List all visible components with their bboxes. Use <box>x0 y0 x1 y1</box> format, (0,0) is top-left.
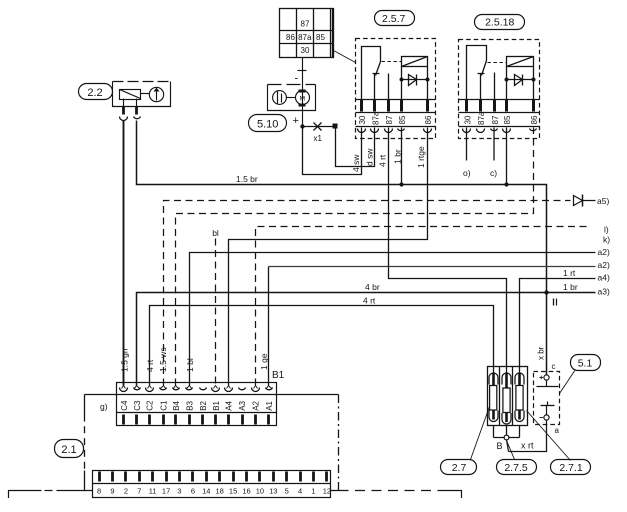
junction dot battery wire on 4br line <box>544 290 548 294</box>
oval label 2.5.7 <box>375 11 415 26</box>
control unit 2.1 left edge <box>84 395 86 415</box>
solenoid coil of 2.2 <box>120 90 141 100</box>
svg-text:B1: B1 <box>212 400 221 410</box>
leader from socket box to relay 2.5.7 <box>334 51 356 63</box>
tick marks ll below junction <box>553 299 555 306</box>
pump motor circle of 2.2 <box>149 87 163 101</box>
svg-text:85: 85 <box>503 115 512 124</box>
svg-text:d sw: d sw <box>365 148 375 166</box>
svg-text:13: 13 <box>269 486 277 495</box>
connector B1 socket arcs <box>120 388 273 392</box>
svg-text:A2: A2 <box>252 400 261 410</box>
svg-text:8: 8 <box>97 486 101 495</box>
svg-text:4 br: 4 br <box>365 282 380 292</box>
bottom pin strip numbers <box>97 486 331 495</box>
motor brush bars of 5.10 <box>299 90 306 93</box>
suppressor diode of 2.5.18 <box>507 75 534 86</box>
relay 2.5.18 contact 87a <box>478 74 485 100</box>
wire 5.10 plus down to relay pin 30 <box>303 127 362 175</box>
relay 2.5.18 pin stubs <box>467 100 534 112</box>
svg-text:86: 86 <box>530 115 539 124</box>
wire pin A1 to terminal a2 <box>268 267 270 386</box>
svg-text:a3): a3) <box>598 287 610 297</box>
svg-text:5.1: 5.1 <box>578 357 593 369</box>
wire junction to x1 <box>303 126 336 128</box>
svg-text:10: 10 <box>256 486 264 495</box>
battery plus terminal <box>544 375 549 380</box>
svg-text:A1: A1 <box>265 400 274 410</box>
relay 2.5.18 mechanical link <box>488 62 507 64</box>
wire square node down to relay pin 87a <box>336 127 375 167</box>
fuse bottom bracket wire <box>494 437 520 439</box>
svg-text:c: c <box>552 362 556 371</box>
relay 2.5.18 switch arm <box>467 46 487 100</box>
dashed wire pin A2 to terminal l <box>256 227 591 386</box>
square junction node <box>333 124 338 129</box>
fuse 2.7 element 1 <box>489 373 498 422</box>
svg-text:A3: A3 <box>238 400 247 410</box>
svg-text:a4): a4) <box>598 272 610 282</box>
fuse bottom stubs <box>494 426 520 438</box>
connector B1 wire end forks <box>122 386 272 389</box>
wire 1.5 gn from 2.2 to pin C4 <box>123 121 125 386</box>
svg-text:85: 85 <box>316 33 325 42</box>
relay 2.5.7 switch arm <box>362 47 381 100</box>
svg-text:C3: C3 <box>133 400 142 411</box>
relay 2.5.18 contact 87 <box>494 73 496 100</box>
terminal crossbar tick <box>298 70 307 72</box>
svg-text:l): l) <box>604 225 609 235</box>
relay 2.5.7 contact 87a <box>373 74 380 100</box>
svg-text:87a: 87a <box>477 111 486 125</box>
svg-text:87: 87 <box>491 115 500 124</box>
battery 5.1 dashed housing <box>534 372 560 425</box>
svg-text:1 rtge: 1 rtge <box>416 146 426 168</box>
svg-text:2.5.18: 2.5.18 <box>485 17 514 29</box>
motor circle of 5.10 <box>296 91 310 105</box>
wire node to x rt run <box>507 440 509 452</box>
wire x rt to battery minus <box>509 425 547 452</box>
pump arrow of 2.2 <box>154 88 160 92</box>
relay 2.5.7 pin stubs <box>362 100 428 112</box>
svg-text:87: 87 <box>301 20 310 29</box>
wire 1.5 br from 2.2 to battery <box>137 121 547 375</box>
relay U2.5.18 dashed housing <box>459 40 540 139</box>
svg-text:B: B <box>497 441 503 451</box>
svg-text:a5): a5) <box>597 196 609 206</box>
oval label 2.7.1 <box>551 460 591 475</box>
svg-text:30: 30 <box>463 115 472 124</box>
svg-text:6: 6 <box>191 486 195 495</box>
svg-text:3: 3 <box>177 486 181 495</box>
svg-text:1.5 gn: 1.5 gn <box>119 348 129 372</box>
relay 2.5.18 internal bus line <box>459 99 540 101</box>
oval label 2.7.5 <box>497 460 537 475</box>
svg-text:1 bl: 1 bl <box>185 358 195 372</box>
wire 4 br pin C3 to terminal a3 <box>137 293 596 386</box>
svg-text:1 br: 1 br <box>563 282 578 292</box>
relay 2.5.18 socket arcs <box>463 129 537 133</box>
leader 2.7.1 to fuse box <box>527 411 571 461</box>
svg-text:bl: bl <box>212 228 219 238</box>
svg-text:g): g) <box>100 402 108 412</box>
connector B1 housing <box>117 383 277 426</box>
svg-text:C1: C1 <box>159 400 168 411</box>
svg-text:16: 16 <box>242 486 250 495</box>
svg-text:7: 7 <box>137 486 141 495</box>
relay 2.5.7 socket arcs <box>358 129 432 133</box>
svg-text:B1: B1 <box>272 370 285 381</box>
svg-text:15: 15 <box>229 486 237 495</box>
svg-text:14: 14 <box>202 486 210 495</box>
leader 2.7.5 to fuse node <box>507 441 515 460</box>
wire fuse 3 to terminal a4 <box>520 279 596 375</box>
relay 2.5.7 contact 87 <box>388 74 390 100</box>
socket arcs of 2.2 <box>120 117 128 121</box>
junction dot 2.5.7 pin85 <box>399 182 403 186</box>
svg-text:87a: 87a <box>372 111 381 125</box>
connector B1 pin stubs <box>124 415 269 425</box>
svg-text:4 rt: 4 rt <box>378 154 388 167</box>
junction dot below 5.10 <box>300 124 304 128</box>
svg-text:2.2: 2.2 <box>87 87 102 99</box>
svg-text:5: 5 <box>285 486 289 495</box>
svg-text:87a: 87a <box>298 33 312 42</box>
svg-text:2.7.1: 2.7.1 <box>559 462 583 474</box>
terminal stubs of 2.2 <box>122 107 125 115</box>
control unit 2.1 bottom extension dashed <box>339 490 448 492</box>
svg-text:4 sw: 4 sw <box>351 154 361 172</box>
svg-text:B3: B3 <box>185 400 194 410</box>
relay 2.5.7 internal bus line <box>356 99 436 101</box>
svg-text:9: 9 <box>110 486 114 495</box>
battery plate short <box>547 402 549 406</box>
svg-text:86: 86 <box>286 33 295 42</box>
control unit 2.1 bottom right edge <box>331 490 339 492</box>
fuse box housing <box>488 367 528 426</box>
svg-text:a2): a2) <box>598 247 610 257</box>
battery minus terminal <box>544 415 549 420</box>
node circle at fuse bracket <box>504 435 509 440</box>
oval label 2.2 <box>79 84 113 100</box>
svg-text:+: + <box>293 115 299 127</box>
washer pump 5.10 <box>268 85 316 111</box>
svg-text:x rt: x rt <box>521 441 534 451</box>
svg-text:17: 17 <box>162 486 170 495</box>
bottom pin strip housing <box>93 471 331 498</box>
svg-text:c): c) <box>490 168 497 178</box>
svg-text:2.5.7: 2.5.7 <box>382 13 406 25</box>
fuse 2.7.5 element 2 <box>502 373 511 425</box>
svg-text:1 ge: 1 ge <box>259 353 269 370</box>
svg-text:-: - <box>295 73 299 85</box>
svg-text:12: 12 <box>323 486 331 495</box>
relay coil 2.5.7 <box>402 57 428 100</box>
oval label 2.1 <box>55 440 84 458</box>
relay 2.5.18 pin strip lines <box>459 112 540 114</box>
svg-text:87: 87 <box>385 115 394 124</box>
control unit 2.1 top edge <box>85 394 339 396</box>
svg-text:1.5 ws: 1.5 ws <box>158 347 168 372</box>
diode a5 <box>574 196 583 206</box>
svg-text:x br: x br <box>537 346 546 360</box>
relay U2.5.7 dashed housing <box>356 39 436 139</box>
wire relay 2.5.7 pin 87 to fuse 2 <box>389 128 507 375</box>
svg-text:k): k) <box>603 235 610 245</box>
svg-text:C2: C2 <box>146 400 155 411</box>
bottom pin strip stubs <box>100 472 327 482</box>
svg-text:2.1: 2.1 <box>61 444 76 456</box>
svg-text:1.5 br: 1.5 br <box>236 174 258 184</box>
relay 2.5.18 switch blade <box>482 61 487 76</box>
svg-text:a2): a2) <box>598 260 610 270</box>
wire stub pin30 of 2.5.18 <box>466 128 468 161</box>
relay 2.5.7 switch blade <box>376 62 381 76</box>
control unit 2.1 bottom left extension <box>9 491 42 499</box>
connector x1 cross <box>314 123 322 131</box>
svg-text:4 rt: 4 rt <box>145 359 155 372</box>
level sensor circle of 5.10 <box>273 91 287 105</box>
svg-text:x1: x1 <box>314 134 323 143</box>
dashed wire pin B4 to relay 2.5.18 pin 86 <box>176 128 534 386</box>
svg-text:85: 85 <box>398 115 407 124</box>
svg-text:2.7: 2.7 <box>452 462 467 474</box>
wire 2.5.7 pin85 to 1.5br line <box>401 128 403 185</box>
relay coil 2.5.18 <box>507 57 534 100</box>
svg-text:5.10: 5.10 <box>257 118 278 130</box>
oval label 5.10 <box>249 115 287 132</box>
wire pin A4 to relay 2.5.7 pin 86 <box>229 128 428 386</box>
svg-text:2: 2 <box>124 486 128 495</box>
dashed wire stub pin B1 <box>215 239 217 386</box>
junction dot 2.5.18 pin85 <box>504 182 508 186</box>
relay 2.5.7 mechanical link <box>382 61 402 63</box>
wire 2.5.18 pin85 to 1.5br line <box>506 128 508 185</box>
dashed wire pin C1 to diode a5 <box>164 201 571 386</box>
svg-text:A4: A4 <box>225 400 234 410</box>
svg-text:C4: C4 <box>120 400 129 411</box>
svg-text:1: 1 <box>311 486 315 495</box>
relay socket pin-layout box (top view) <box>280 9 334 58</box>
svg-text:a: a <box>555 426 560 435</box>
svg-text:4: 4 <box>298 486 302 495</box>
wire from socket box down through 5.10 motor <box>302 58 304 127</box>
leader 5.1 to battery <box>560 370 576 394</box>
svg-text:4 rt: 4 rt <box>363 295 376 305</box>
svg-text:2.7.5: 2.7.5 <box>504 462 528 474</box>
leader 2.7 to fuse box <box>471 407 490 460</box>
svg-text:o): o) <box>463 168 471 178</box>
svg-text:1 rt: 1 rt <box>563 268 576 278</box>
svg-text:B2: B2 <box>199 400 208 410</box>
oval label 2.7 <box>441 460 477 475</box>
wire pin B3 to terminal a2 <box>190 253 596 386</box>
svg-text:30: 30 <box>358 115 367 124</box>
battery plate long <box>537 386 559 388</box>
pump unit 2.2 <box>113 82 171 107</box>
svg-text:11: 11 <box>149 486 157 495</box>
svg-text:18: 18 <box>216 486 224 495</box>
suppressor diode of 2.5.7 <box>402 75 428 86</box>
svg-text:86: 86 <box>424 115 433 124</box>
relay 2.5.7 pin strip lines <box>356 112 436 114</box>
wire 4 rt pin C2 to fuse 1 <box>150 306 494 386</box>
fuse 2.7.1 element 3 <box>515 373 524 422</box>
wire stub pin87 of 2.5.18 <box>493 128 495 161</box>
oval label 5.1 <box>571 355 601 371</box>
control unit 2.1 right edge <box>338 395 340 491</box>
svg-text:30: 30 <box>301 46 310 55</box>
oval label 2.5.18 <box>475 15 525 30</box>
svg-text:B4: B4 <box>172 400 181 410</box>
